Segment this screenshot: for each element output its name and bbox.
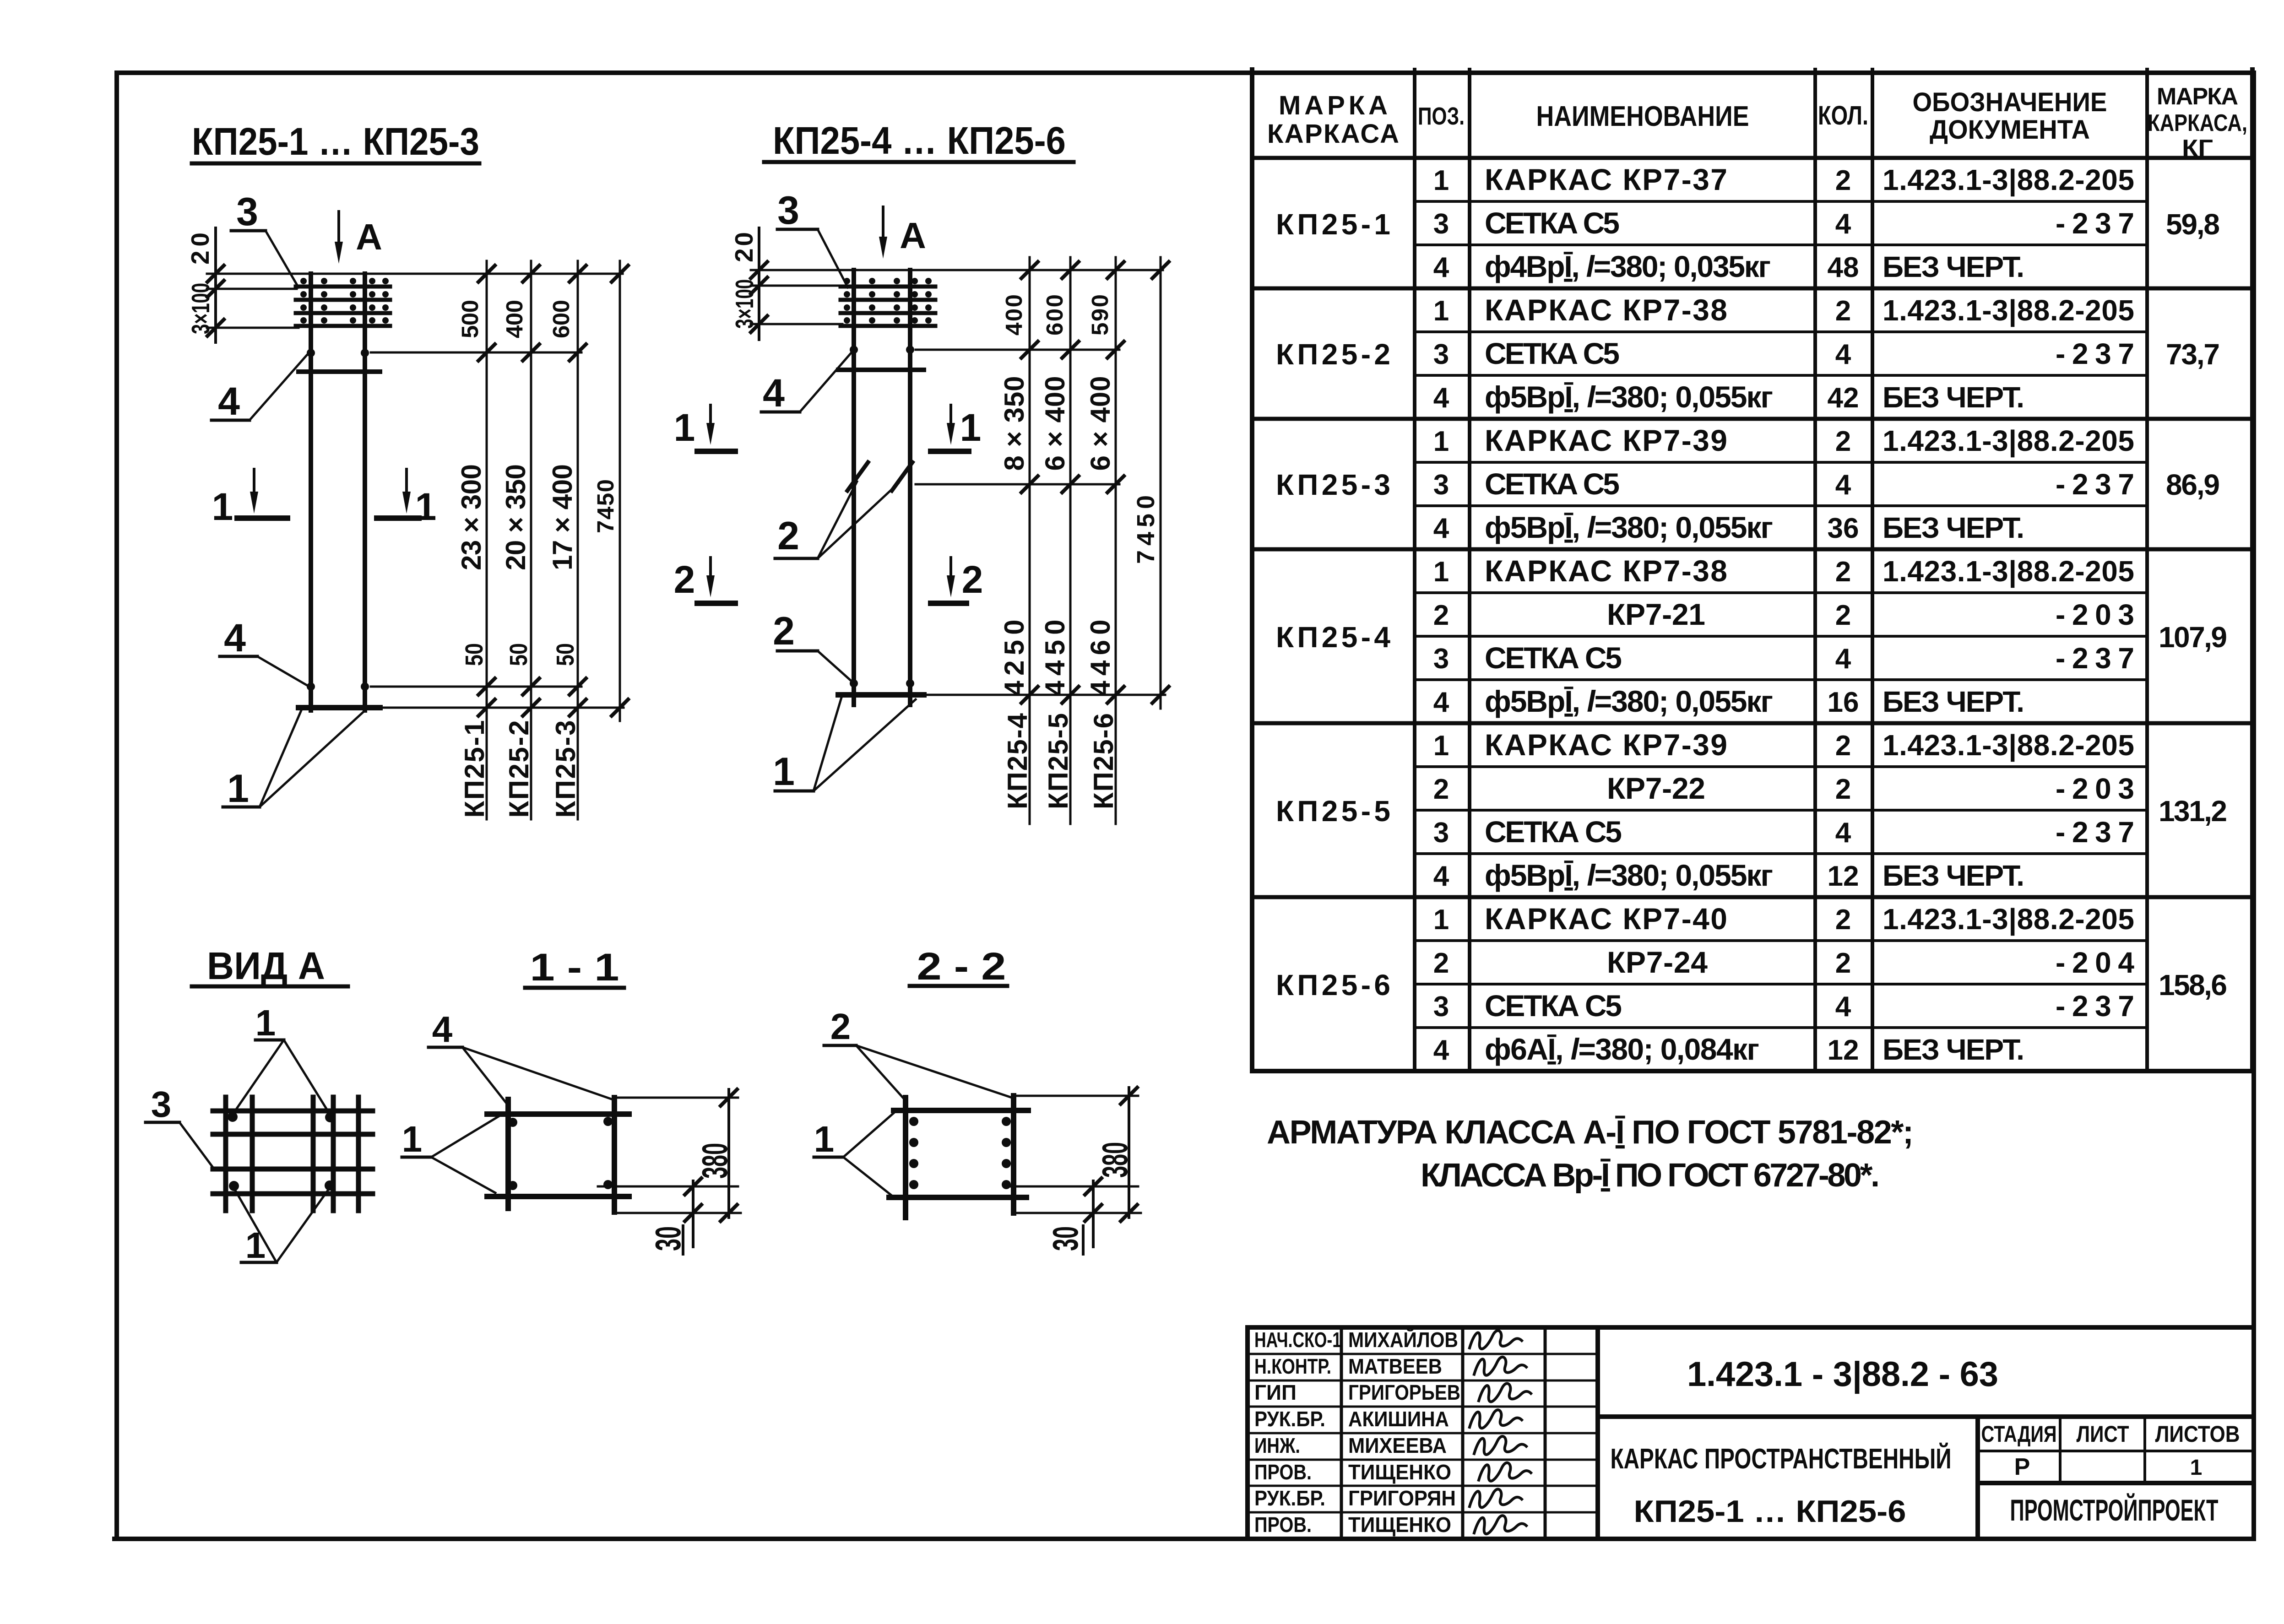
svg-text:3: 3	[1433, 208, 1449, 240]
weld dots below mesh (drawing 2)	[850, 346, 914, 354]
svg-text:7450: 7450	[592, 479, 618, 533]
svg-text:4: 4	[1433, 861, 1449, 892]
weld dots bottom (drawing 1)	[307, 682, 369, 691]
svg-text:1: 1	[415, 485, 437, 528]
document name	[1611, 1443, 1952, 1529]
tie bar (drawing 2)	[838, 368, 924, 372]
weld dots below mesh (drawing 1)	[307, 349, 369, 357]
svg-text:ДОКУМЕНТА: ДОКУМЕНТА	[1930, 115, 2090, 145]
svg-text:1.423.1-3|88.2-205: 1.423.1-3|88.2-205	[1883, 555, 2134, 588]
svg-text:КАРКАС КР7-40: КАРКАС КР7-40	[1485, 902, 1727, 936]
table body rows	[1433, 162, 2135, 1066]
svg-text:4: 4	[763, 371, 785, 415]
svg-text:1: 1	[2190, 1456, 2203, 1480]
svg-text:4: 4	[1433, 1034, 1449, 1066]
cage vertical bar left (drawing 1)	[309, 274, 313, 710]
svg-text:КАРКАСА,: КАРКАСА,	[2148, 110, 2247, 136]
svg-text:МАРКА: МАРКА	[2157, 83, 2238, 110]
svg-text:50: 50	[461, 643, 488, 666]
svg-text:СЕТКА С5: СЕТКА С5	[1485, 336, 1620, 370]
svg-text:400: 400	[501, 300, 527, 338]
svg-text:1: 1	[212, 485, 233, 528]
weld dots bottom (drawing 2)	[850, 679, 914, 687]
witness lines right (drawing 2)	[916, 350, 1165, 695]
svg-text:48: 48	[1828, 252, 1859, 283]
svg-text:12: 12	[1828, 861, 1859, 892]
svg-text:8 × 350: 8 × 350	[999, 376, 1030, 471]
svg-text:ЛИСТОВ: ЛИСТОВ	[2155, 1421, 2240, 1447]
svg-text:КЛАССА Вр-Ī ПО ГОСТ 6727-80*: КЛАССА Вр-Ī ПО ГОСТ 6727-80*.	[1421, 1157, 1880, 1194]
svg-text:590: 590	[1087, 294, 1113, 336]
mini dimension 20 / 3x100 (drawing 2)	[730, 228, 767, 340]
svg-text:4: 4	[1433, 513, 1449, 544]
svg-text:3: 3	[777, 189, 799, 233]
svg-text:КАРКАС КР7-39: КАРКАС КР7-39	[1485, 423, 1727, 457]
svg-text:ПРОВ.: ПРОВ.	[1254, 1513, 1312, 1537]
title block signature rows	[1254, 1328, 1460, 1537]
svg-text:4: 4	[1835, 991, 1851, 1023]
svg-text:1.423.1-3|88.2-205: 1.423.1-3|88.2-205	[1883, 163, 2134, 197]
svg-text:2: 2	[1835, 165, 1851, 196]
extension lines top (drawing 1)	[207, 274, 623, 328]
table first column cage marks	[1276, 208, 1390, 1001]
section mark 2-2 right (drawing 2)	[931, 558, 983, 603]
mini dimension 20 / 3x100 (drawing 1)	[186, 228, 224, 342]
svg-text:2: 2	[1835, 556, 1851, 588]
svg-text:3: 3	[1433, 339, 1449, 370]
dimension line КП25-1 (drawing 1)	[456, 261, 495, 819]
svg-text:КП25-1 … КП25-3: КП25-1 … КП25-3	[192, 120, 479, 163]
svg-text:3: 3	[1433, 991, 1449, 1023]
svg-text:ф5ВрĪ, l=380; 0,055кг: ф5ВрĪ, l=380; 0,055кг	[1485, 510, 1773, 544]
svg-text:1: 1	[402, 1119, 423, 1159]
svg-text:БЕЗ ЧЕРТ.: БЕЗ ЧЕРТ.	[1883, 381, 2024, 414]
leader label 1 (section 1-1)	[402, 1115, 501, 1193]
svg-text:42: 42	[1828, 382, 1859, 414]
svg-text:1: 1	[814, 1119, 835, 1159]
svg-text:1: 1	[1433, 730, 1449, 762]
signatures	[1470, 1331, 1531, 1534]
svg-text:3: 3	[1433, 817, 1449, 849]
svg-text:РУК.БР.: РУК.БР.	[1254, 1407, 1325, 1431]
svg-text:А: А	[356, 217, 382, 257]
svg-text:МИХАЙЛОВ: МИХАЙЛОВ	[1348, 1328, 1458, 1352]
document number	[1687, 1355, 1998, 1394]
svg-text:3: 3	[151, 1084, 172, 1125]
svg-text:ф6АĪ, l=380; 0,084кг: ф6АĪ, l=380; 0,084кг	[1485, 1032, 1759, 1066]
svg-text:4: 4	[1433, 252, 1449, 283]
svg-text:ТИЩЕНКО: ТИЩЕНКО	[1348, 1460, 1451, 1484]
svg-text:4: 4	[224, 616, 246, 660]
svg-text:1: 1	[674, 406, 695, 449]
svg-text:1 - 1: 1 - 1	[530, 946, 619, 989]
organization PROMSTROYPROEKT	[2010, 1493, 2219, 1527]
svg-text:КП25-1 … КП25-6: КП25-1 … КП25-6	[1634, 1494, 1906, 1529]
svg-text:1.423.1-3|88.2-205: 1.423.1-3|88.2-205	[1883, 729, 2134, 762]
leader label 1 bottom (view A)	[235, 1189, 329, 1266]
svg-text:БЕЗ ЧЕРТ.: БЕЗ ЧЕРТ.	[1883, 685, 2024, 718]
svg-text:ЛИСТ: ЛИСТ	[2077, 1421, 2129, 1447]
svg-text:КП25-4: КП25-4	[1002, 713, 1033, 809]
svg-text:СЕТКА С5: СЕТКА С5	[1485, 815, 1622, 849]
svg-text:4: 4	[432, 1009, 453, 1050]
svg-text:600: 600	[548, 300, 574, 338]
section mark 1-1 right (drawing 1)	[377, 469, 436, 528]
svg-text:АРМАТУРА КЛАССА А-Ī ПО ГОСТ: АРМАТУРА КЛАССА А-Ī ПО ГОСТ 5781-82*;	[1267, 1114, 1914, 1151]
svg-text:1: 1	[1433, 295, 1449, 327]
svg-text:КАРКАС КР7-37: КАРКАС КР7-37	[1485, 162, 1727, 196]
leader label 4 lower (drawing 1)	[220, 616, 308, 686]
svg-text:КР7-24: КР7-24	[1607, 945, 1708, 979]
svg-text:ф4ВрĪ, l=380; 0,035кг: ф4ВрĪ, l=380; 0,035кг	[1485, 249, 1771, 283]
svg-text:2: 2	[1835, 600, 1851, 631]
svg-text:НАЧ.СКО-1: НАЧ.СКО-1	[1254, 1328, 1341, 1352]
svg-text:ПОЗ.: ПОЗ.	[1418, 103, 1465, 130]
svg-text:Р: Р	[2014, 1454, 2030, 1480]
svg-text:Н.КОНТР.: Н.КОНТР.	[1254, 1354, 1331, 1378]
svg-text:ф5ВрĪ, l=380; 0,055кг: ф5ВрĪ, l=380; 0,055кг	[1485, 858, 1773, 892]
svg-text:1: 1	[960, 406, 982, 449]
svg-text:СЕТКА С5: СЕТКА С5	[1485, 989, 1622, 1023]
svg-text:4: 4	[1433, 382, 1449, 414]
svg-text:ПРОВ.: ПРОВ.	[1254, 1460, 1312, 1484]
specification table grid	[1252, 70, 2252, 1071]
svg-text:4: 4	[1835, 643, 1851, 675]
svg-text:ГИП: ГИП	[1254, 1380, 1297, 1404]
svg-text:1: 1	[1433, 556, 1449, 588]
svg-text:107,9: 107,9	[2159, 621, 2227, 654]
dimension 380/30 (section 1-1)	[598, 1089, 741, 1254]
svg-text:ГРИГОРЯН: ГРИГОРЯН	[1348, 1486, 1456, 1510]
svg-text:СЕТКА С5: СЕТКА С5	[1485, 467, 1620, 501]
cage vertical bar right (drawing 2)	[908, 270, 912, 705]
leader label 3 (drawing 1)	[231, 190, 298, 287]
svg-text:КП25-1: КП25-1	[459, 720, 490, 818]
svg-text:20 × 350: 20 × 350	[500, 464, 531, 570]
title KP25-1...KP25-3	[192, 120, 479, 163]
leader label 1 (section 2-2)	[814, 1112, 895, 1196]
svg-text:400: 400	[1001, 294, 1027, 336]
svg-text:2: 2	[1835, 730, 1851, 762]
section mark 1-1 right (drawing 2)	[931, 405, 981, 451]
svg-text:3: 3	[1433, 643, 1449, 675]
svg-text:КП25-3: КП25-3	[550, 720, 581, 818]
svg-text:КП25-5: КП25-5	[1043, 713, 1074, 809]
section mark 1-1 left (drawing 2)	[674, 405, 735, 451]
cage vertical bar right (drawing 1)	[363, 274, 367, 710]
overall dimension 7450 (drawing 2)	[1132, 257, 1169, 709]
leader label 4 (drawing 2)	[761, 352, 852, 415]
mesh bars seen edge-on at cage top (drawing 2)	[841, 278, 935, 326]
leader label 4 upper (drawing 1)	[212, 355, 307, 423]
svg-text:2: 2	[1835, 947, 1851, 979]
note armature classes	[1267, 1114, 1914, 1194]
svg-text:2: 2	[1835, 774, 1851, 805]
leader label 2 middle (drawing 2)	[775, 482, 898, 558]
svg-text:23 × 300: 23 × 300	[456, 464, 487, 570]
bottom mesh bar (drawing 2)	[838, 692, 924, 698]
svg-text:2: 2	[674, 558, 695, 601]
svg-text:2: 2	[773, 609, 795, 653]
svg-text:КАРКАС ПРОСТРАНСТВЕННЫЙ: КАРКАС ПРОСТРАНСТВЕННЫЙ	[1611, 1443, 1952, 1475]
dimension line КП25-5 (drawing 2)	[1040, 257, 1079, 824]
svg-text:600: 600	[1042, 294, 1068, 336]
svg-text:А: А	[900, 215, 926, 256]
svg-text:16: 16	[1828, 687, 1859, 718]
mesh grid plan (view A)	[213, 1097, 373, 1211]
svg-text:12: 12	[1828, 1034, 1859, 1066]
svg-text:СЕТКА С5: СЕТКА С5	[1485, 206, 1620, 240]
svg-text:2: 2	[1433, 774, 1449, 805]
svg-text:1.423.1 - 3|88.2 - 63: 1.423.1 - 3|88.2 - 63	[1687, 1355, 1998, 1394]
table header	[1267, 83, 2247, 162]
svg-text:КОЛ.: КОЛ.	[1818, 101, 1868, 130]
title KP25-4...KP25-6	[764, 119, 1074, 162]
svg-text:3×100: 3×100	[186, 283, 215, 334]
svg-text:2: 2	[962, 558, 983, 601]
svg-text:КАРКАС КР7-38: КАРКАС КР7-38	[1485, 554, 1727, 588]
overall dimension 7450 (drawing 1)	[592, 261, 628, 721]
svg-text:500: 500	[457, 300, 483, 338]
svg-text:1: 1	[1433, 165, 1449, 196]
leader label 3 (drawing 2)	[777, 189, 848, 287]
svg-text:158,6: 158,6	[2159, 969, 2227, 1001]
svg-text:1.423.1-3|88.2-205: 1.423.1-3|88.2-205	[1883, 903, 2134, 936]
svg-text:БЕЗ ЧЕРТ.: БЕЗ ЧЕРТ.	[1883, 859, 2024, 892]
svg-text:1: 1	[227, 767, 249, 811]
title section 1-1	[525, 946, 624, 989]
leader label 1 bottom (drawing 1)	[223, 710, 363, 811]
leader label 2 lower (drawing 2)	[773, 609, 852, 682]
svg-text:КАРКАС КР7-39: КАРКАС КР7-39	[1485, 728, 1727, 762]
svg-text:МАРКА: МАРКА	[1279, 91, 1388, 120]
dimension line КП25-3 (drawing 1)	[547, 261, 586, 819]
svg-text:ф5ВрĪ, l=380; 0,055кг: ф5ВрĪ, l=380; 0,055кг	[1485, 684, 1773, 718]
svg-text:СЕТКА С5: СЕТКА С5	[1485, 641, 1622, 675]
svg-text:2: 2	[1835, 426, 1851, 457]
title section 2-2	[910, 945, 1007, 988]
svg-text:БЕЗ ЧЕРТ.: БЕЗ ЧЕРТ.	[1883, 511, 2024, 544]
svg-text:2: 2	[1835, 904, 1851, 936]
svg-text:КП25-2: КП25-2	[504, 720, 534, 818]
leader label 4 (section 1-1)	[429, 1009, 613, 1103]
svg-text:ВИД А: ВИД А	[207, 944, 325, 987]
svg-text:36: 36	[1828, 513, 1859, 544]
svg-text:59,8: 59,8	[2166, 208, 2220, 241]
svg-text:НАИМЕНОВАНИЕ: НАИМЕНОВАНИЕ	[1536, 101, 1749, 132]
dimension line КП25-6 (drawing 2)	[1085, 257, 1124, 824]
svg-text:КГ: КГ	[2182, 135, 2213, 162]
svg-text:6 × 400: 6 × 400	[1085, 376, 1116, 471]
svg-text:17 × 400: 17 × 400	[547, 464, 578, 570]
svg-text:1: 1	[1433, 904, 1449, 936]
svg-text:4: 4	[218, 379, 240, 423]
svg-text:131,2: 131,2	[2159, 795, 2227, 828]
leader label 1 top (view A)	[233, 1002, 329, 1113]
svg-text:КП25-4 … КП25-6: КП25-4 … КП25-6	[773, 119, 1066, 162]
svg-text:ОБОЗНАЧЕНИЕ: ОБОЗНАЧЕНИЕ	[1913, 87, 2107, 117]
svg-text:ГРИГОРЬЕВ: ГРИГОРЬЕВ	[1348, 1380, 1460, 1404]
svg-text:КАРКАС КР7-38: КАРКАС КР7-38	[1485, 293, 1727, 327]
svg-text:2: 2	[1835, 295, 1851, 327]
section mark 1-1 left (drawing 1)	[212, 469, 288, 528]
svg-text:ТИЩЕНКО: ТИЩЕНКО	[1348, 1513, 1451, 1537]
svg-text:КР7-21: КР7-21	[1607, 597, 1705, 631]
svg-text:СТАДИЯ: СТАДИЯ	[1981, 1421, 2057, 1447]
bottom mesh bar (drawing 1)	[298, 705, 380, 710]
witness lines right (drawing 1)	[371, 352, 624, 708]
svg-text:4: 4	[1835, 469, 1851, 501]
svg-text:1.423.1-3|88.2-205: 1.423.1-3|88.2-205	[1883, 294, 2134, 327]
svg-text:30: 30	[1045, 1226, 1085, 1251]
svg-text:3: 3	[1433, 469, 1449, 501]
view direction arrow A (drawing 1)	[335, 211, 382, 264]
title block grid	[1248, 1327, 2254, 1539]
svg-text:КР7-22: КР7-22	[1607, 771, 1705, 805]
title VIEW A	[192, 944, 348, 987]
leader label 1 bottom (drawing 2)	[773, 698, 916, 794]
view direction arrow A (drawing 2)	[879, 207, 926, 259]
dimension line КП25-2 (drawing 1)	[500, 261, 539, 819]
svg-text:6 × 400: 6 × 400	[1040, 376, 1070, 471]
svg-text:1: 1	[255, 1002, 276, 1043]
svg-text:БЕЗ ЧЕРТ.: БЕЗ ЧЕРТ.	[1883, 1033, 2024, 1066]
svg-text:50: 50	[505, 643, 532, 666]
svg-text:86,9: 86,9	[2166, 468, 2220, 501]
break marks on bars (drawing 2)	[847, 462, 912, 491]
section mark 2-2 left (drawing 2)	[674, 558, 735, 603]
svg-text:2: 2	[1433, 947, 1449, 979]
svg-text:ПРОМСТРОЙПРОЕКТ: ПРОМСТРОЙПРОЕКТ	[2010, 1493, 2219, 1527]
svg-text:ИНЖ.: ИНЖ.	[1254, 1434, 1300, 1457]
svg-text:4: 4	[1835, 208, 1851, 240]
svg-text:3: 3	[236, 190, 258, 234]
stage/sheet cells	[1981, 1421, 2240, 1480]
svg-text:АКИШИНА: АКИШИНА	[1348, 1407, 1449, 1431]
svg-text:1: 1	[1433, 426, 1449, 457]
svg-text:380: 380	[694, 1143, 735, 1179]
svg-text:КП25-6: КП25-6	[1088, 713, 1119, 809]
svg-text:4: 4	[1835, 339, 1851, 370]
stirrup frame (section 1-1)	[487, 1098, 629, 1212]
leader label 2 (section 2-2)	[824, 1006, 1012, 1099]
svg-text:2: 2	[777, 514, 799, 558]
leader label 3 (view A)	[146, 1084, 214, 1169]
svg-text:380: 380	[1095, 1142, 1135, 1178]
cage vertical bar left (drawing 2)	[852, 270, 856, 705]
extension lines top (drawing 2)	[751, 270, 1163, 324]
svg-text:2: 2	[1433, 600, 1449, 631]
dimension line КП25-4 (drawing 2)	[999, 257, 1038, 824]
svg-text:ф5ВрĪ, l=380; 0,055кг: ф5ВрĪ, l=380; 0,055кг	[1485, 380, 1773, 414]
svg-text:50: 50	[552, 643, 579, 666]
svg-text:1: 1	[245, 1225, 266, 1266]
tie bar (drawing 1)	[298, 369, 380, 374]
svg-text:2: 2	[830, 1006, 851, 1047]
svg-text:73,7: 73,7	[2166, 338, 2220, 371]
svg-text:1: 1	[773, 750, 795, 794]
table weight column	[2159, 208, 2227, 1001]
svg-text:1.423.1-3|88.2-205: 1.423.1-3|88.2-205	[1883, 424, 2134, 458]
mesh bars seen edge-on at cage top (drawing 1)	[296, 278, 390, 326]
svg-text:4: 4	[1835, 817, 1851, 849]
svg-text:2 - 2: 2 - 2	[917, 945, 1006, 988]
svg-text:4: 4	[1433, 687, 1449, 718]
svg-text:МИХЕЕВА: МИХЕЕВА	[1348, 1434, 1447, 1457]
svg-text:МАТВЕЕВ: МАТВЕЕВ	[1348, 1354, 1442, 1378]
svg-text:РУК.БР.: РУК.БР.	[1254, 1486, 1325, 1510]
stirrup frame (section 2-2)	[889, 1096, 1028, 1218]
dimension 380/30 (section 2-2)	[1009, 1088, 1141, 1254]
svg-text:БЕЗ ЧЕРТ.: БЕЗ ЧЕРТ.	[1883, 250, 2024, 283]
